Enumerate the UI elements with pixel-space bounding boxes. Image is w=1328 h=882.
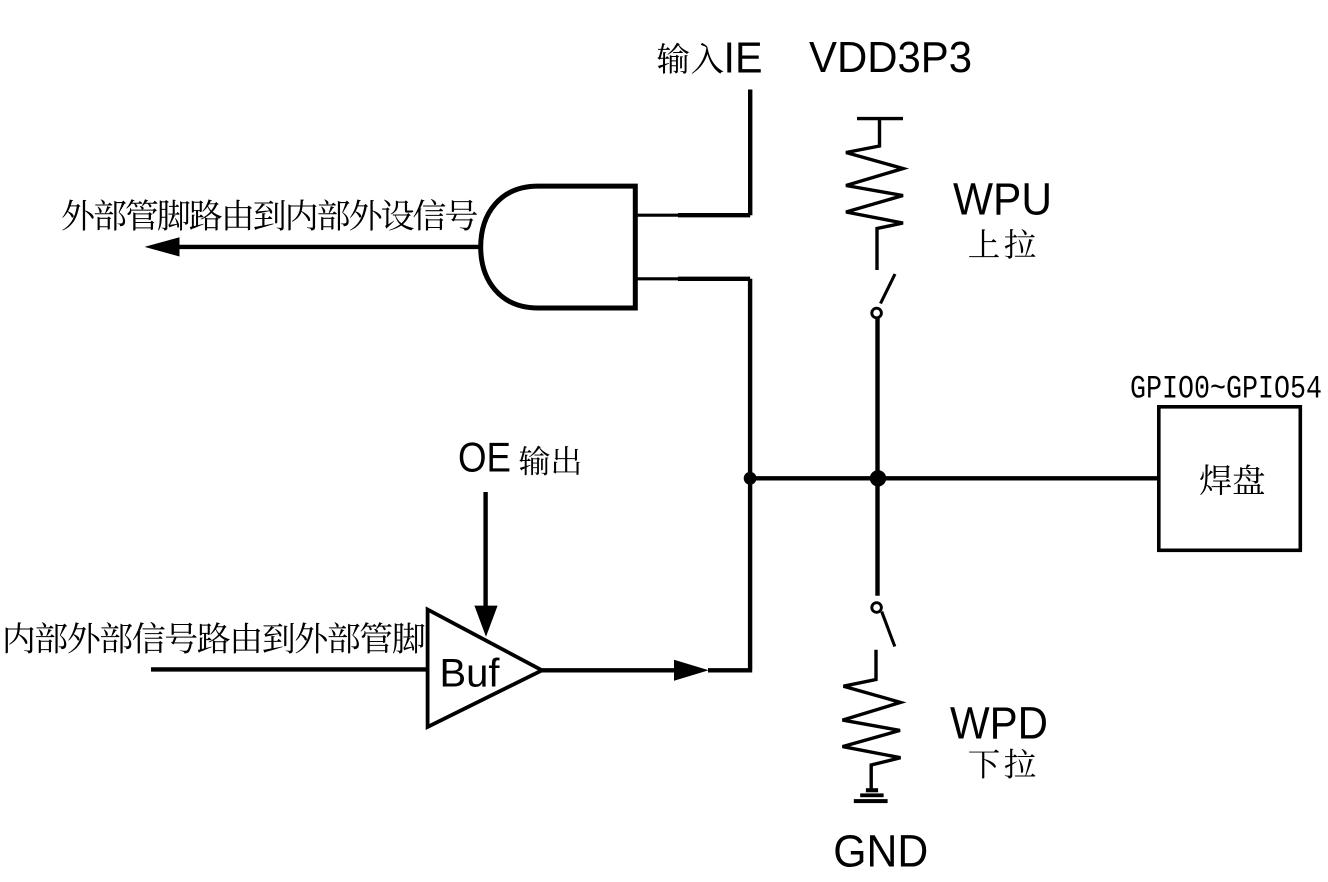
svg-text:OE: OE — [458, 434, 511, 481]
svg-text:Buf: Buf — [440, 652, 501, 696]
svg-text:GPIO0~GPIO54: GPIO0~GPIO54 — [1130, 371, 1322, 408]
svg-text:WPD: WPD — [950, 698, 1048, 749]
svg-text:VDD3P3: VDD3P3 — [809, 33, 972, 82]
svg-text:GND: GND — [833, 826, 928, 877]
svg-text:IE: IE — [724, 34, 763, 83]
svg-text:WPU: WPU — [953, 174, 1052, 225]
